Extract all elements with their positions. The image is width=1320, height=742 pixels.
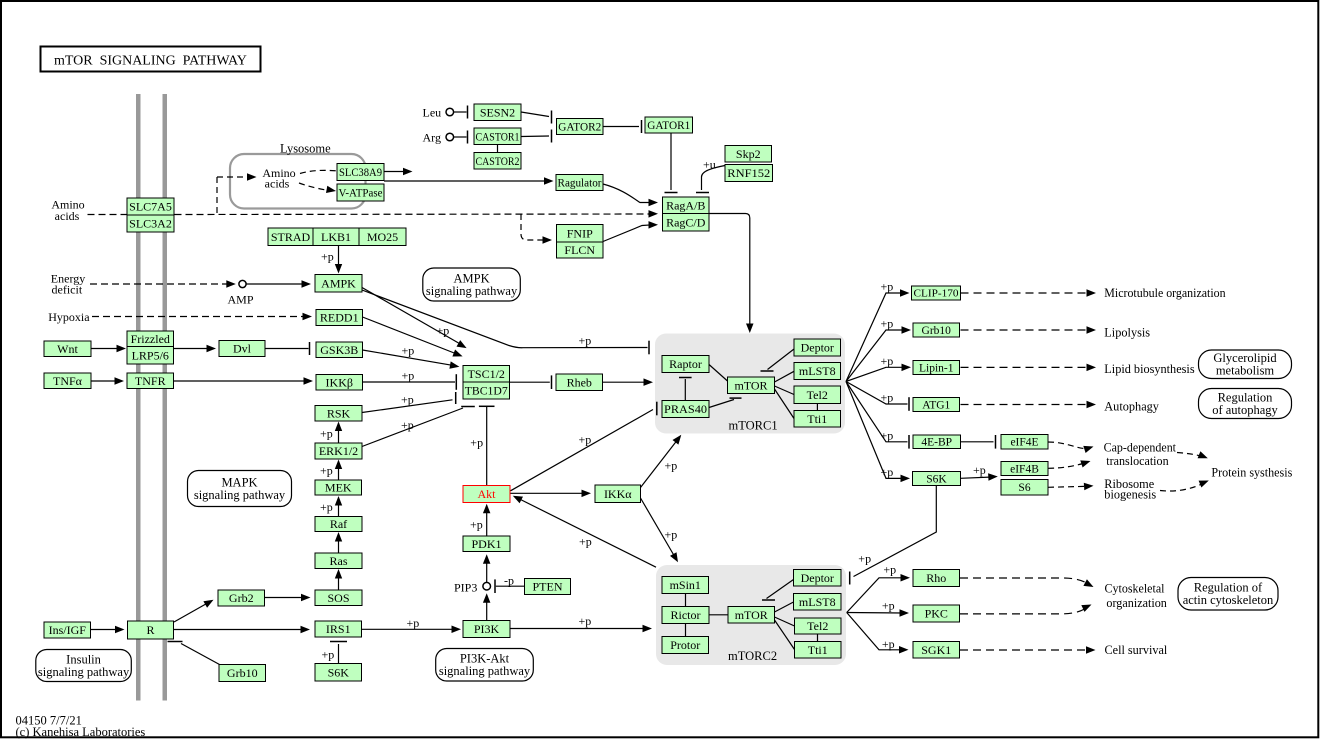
svg-text:IKKβ: IKKβ: [326, 375, 353, 389]
svg-text:GSK3B: GSK3B: [320, 343, 358, 357]
svg-text:Ragulator: Ragulator: [558, 176, 602, 190]
svg-text:CLIP-170: CLIP-170: [914, 288, 960, 300]
svg-text:mTOR: mTOR: [735, 608, 768, 622]
svg-text:Rho: Rho: [926, 571, 946, 585]
svg-text:+p: +p: [882, 637, 895, 651]
svg-text:RSK: RSK: [327, 406, 351, 420]
svg-text:mTOR SIGNALING PATHWAY: mTOR SIGNALING PATHWAY: [54, 54, 248, 69]
svg-text:+p: +p: [881, 354, 894, 368]
svg-text:4E-BP: 4E-BP: [921, 437, 952, 449]
svg-text:metabolism: metabolism: [1216, 364, 1275, 378]
svg-text:SOS: SOS: [327, 591, 349, 605]
svg-text:Cytoskeletal: Cytoskeletal: [1105, 582, 1166, 596]
svg-text:signaling pathway: signaling pathway: [38, 665, 130, 679]
svg-text:LRP5/6: LRP5/6: [132, 348, 169, 362]
svg-text:Deptor: Deptor: [801, 341, 834, 355]
svg-text:ATG1: ATG1: [922, 399, 950, 411]
svg-text:+p: +p: [881, 391, 894, 405]
svg-text:+p: +p: [322, 648, 335, 662]
svg-text:S6: S6: [1018, 482, 1030, 494]
svg-text:Wnt: Wnt: [57, 342, 78, 356]
svg-text:TBC1D7: TBC1D7: [465, 384, 508, 398]
svg-text:PIP3: PIP3: [454, 580, 477, 594]
svg-text:+p: +p: [320, 500, 333, 514]
svg-text:mLST8: mLST8: [799, 595, 836, 609]
svg-text:AMPK: AMPK: [321, 276, 356, 290]
svg-text:CASTOR1: CASTOR1: [476, 129, 520, 143]
svg-text:Ras: Ras: [330, 554, 348, 568]
svg-text:Rheb: Rheb: [567, 375, 592, 389]
svg-text:+p: +p: [881, 280, 894, 294]
svg-text:mTORC2: mTORC2: [728, 649, 777, 663]
svg-text:RagA/B: RagA/B: [666, 198, 705, 212]
svg-text:mTOR: mTOR: [734, 378, 767, 392]
svg-text:+p: +p: [579, 334, 592, 348]
svg-text:SGK1: SGK1: [921, 643, 951, 657]
svg-text:MEK: MEK: [325, 481, 352, 495]
svg-text:signaling pathway: signaling pathway: [194, 488, 286, 502]
svg-text:+p: +p: [320, 427, 333, 441]
svg-text:Cap-dependent: Cap-dependent: [1104, 440, 1177, 454]
svg-text:STRAD: STRAD: [271, 230, 311, 244]
svg-text:Hypoxia: Hypoxia: [48, 310, 90, 324]
svg-text:Protor: Protor: [670, 638, 700, 652]
svg-text:Lipin-1: Lipin-1: [919, 362, 954, 374]
svg-text:IKKα: IKKα: [604, 487, 632, 501]
svg-text:translocation: translocation: [1106, 454, 1168, 468]
svg-text:mTORC1: mTORC1: [729, 419, 778, 433]
svg-text:Arg: Arg: [423, 131, 441, 145]
svg-text:+p: +p: [401, 418, 414, 432]
svg-text:+p: +p: [401, 392, 414, 406]
svg-text:+p: +p: [881, 317, 894, 331]
svg-text:IRS1: IRS1: [326, 622, 351, 636]
svg-text:+p: +p: [437, 324, 450, 338]
svg-text:Tel2: Tel2: [807, 388, 828, 402]
svg-text:acids: acids: [55, 209, 80, 223]
svg-text:signaling pathway: signaling pathway: [426, 284, 518, 298]
svg-text:eIF4E: eIF4E: [1010, 437, 1038, 449]
svg-text:SESN2: SESN2: [480, 105, 515, 119]
svg-text:TSC1/2: TSC1/2: [468, 367, 505, 381]
svg-text:organization: organization: [1106, 596, 1167, 610]
svg-text:mLST8: mLST8: [799, 364, 836, 378]
svg-text:deficit: deficit: [52, 283, 83, 297]
svg-text:MO25: MO25: [367, 230, 398, 244]
svg-text:+p: +p: [579, 614, 592, 628]
svg-text:S6K: S6K: [926, 473, 947, 485]
svg-text:S6K: S6K: [328, 665, 350, 679]
svg-text:CASTOR2: CASTOR2: [476, 154, 520, 168]
svg-text:+p: +p: [882, 598, 895, 612]
svg-text:+p: +p: [402, 369, 415, 383]
svg-text:mSin1: mSin1: [670, 578, 701, 592]
svg-text:+u: +u: [703, 158, 716, 172]
svg-text:R: R: [146, 623, 154, 637]
svg-text:+p: +p: [470, 435, 483, 449]
svg-text:+p: +p: [470, 518, 483, 532]
svg-text:Cell survival: Cell survival: [1105, 643, 1168, 657]
svg-text:RagC/D: RagC/D: [666, 215, 706, 229]
svg-text:+p: +p: [858, 552, 871, 566]
svg-text:Dvl: Dvl: [233, 342, 252, 356]
svg-text:Tel2: Tel2: [807, 619, 828, 633]
svg-text:Akt: Akt: [478, 487, 497, 501]
svg-text:Tti1: Tti1: [808, 643, 828, 657]
svg-text:TNFα: TNFα: [53, 374, 83, 388]
svg-text:+p: +p: [883, 563, 896, 577]
svg-text:Skp2: Skp2: [736, 147, 761, 161]
svg-text:Rictor: Rictor: [671, 608, 701, 622]
svg-text:ERK1/2: ERK1/2: [319, 444, 358, 458]
svg-text:+p: +p: [665, 459, 678, 473]
svg-text:+p: +p: [407, 616, 420, 630]
svg-text:of autophagy: of autophagy: [1212, 403, 1278, 417]
svg-text:PI3K: PI3K: [474, 622, 500, 636]
svg-text:+p: +p: [579, 535, 592, 549]
svg-text:+p: +p: [321, 250, 334, 264]
svg-text:acids: acids: [265, 177, 290, 191]
svg-text:+p: +p: [320, 464, 333, 478]
svg-text:Raf: Raf: [330, 517, 347, 531]
svg-text:PDK1: PDK1: [471, 537, 501, 551]
svg-text:PTEN: PTEN: [533, 580, 563, 594]
svg-text:SLC7A5: SLC7A5: [129, 200, 172, 214]
svg-text:AMP: AMP: [227, 293, 253, 307]
svg-text:Microtubule organization: Microtubule organization: [1104, 286, 1225, 300]
svg-text:PKC: PKC: [925, 607, 948, 621]
svg-text:Lysosome: Lysosome: [280, 141, 331, 155]
svg-text:FLCN: FLCN: [564, 243, 595, 257]
svg-text:+p: +p: [665, 528, 678, 542]
svg-text:Grb10: Grb10: [227, 666, 258, 680]
svg-text:+p: +p: [579, 433, 592, 447]
svg-text:Frizzled: Frizzled: [131, 332, 170, 346]
svg-text:Ins/IGF: Ins/IGF: [49, 623, 87, 637]
svg-text:GATOR1: GATOR1: [647, 118, 690, 132]
svg-text:Raptor: Raptor: [669, 357, 702, 371]
svg-text:SLC38A9: SLC38A9: [339, 165, 382, 179]
svg-text:Grb10: Grb10: [922, 325, 952, 337]
svg-text:SLC3A2: SLC3A2: [129, 217, 172, 231]
svg-text:Autophagy: Autophagy: [1104, 400, 1159, 414]
svg-text:V-ATPase: V-ATPase: [339, 186, 383, 200]
svg-text:Tti1: Tti1: [807, 412, 827, 426]
svg-text:LKB1: LKB1: [321, 230, 351, 244]
svg-text:eIF4B: eIF4B: [1010, 463, 1039, 475]
svg-text:GATOR2: GATOR2: [558, 120, 601, 134]
svg-text:+p: +p: [973, 463, 986, 477]
svg-text:(c) Kanehisa Laboratories: (c) Kanehisa Laboratories: [16, 725, 146, 739]
svg-text:REDD1: REDD1: [320, 311, 359, 325]
svg-text:RNF152: RNF152: [727, 166, 770, 180]
svg-text:Deptor: Deptor: [801, 571, 834, 585]
svg-text:PRAS40: PRAS40: [664, 402, 707, 416]
svg-text:actin cytoskeleton: actin cytoskeleton: [1183, 593, 1274, 607]
svg-text:biogenesis: biogenesis: [1104, 487, 1156, 501]
svg-text:Grb2: Grb2: [229, 591, 254, 605]
svg-text:+p: +p: [881, 428, 894, 442]
svg-text:Leu: Leu: [423, 106, 442, 120]
svg-text:FNIP: FNIP: [567, 226, 593, 240]
svg-text:+p: +p: [881, 465, 894, 479]
svg-text:Protein systhesis: Protein systhesis: [1211, 466, 1292, 480]
svg-text:Lipid biosynthesis: Lipid biosynthesis: [1104, 362, 1195, 376]
svg-text:Lipolysis: Lipolysis: [1104, 326, 1150, 340]
svg-text:signaling pathway: signaling pathway: [439, 664, 531, 678]
svg-text:TNFR: TNFR: [135, 374, 166, 388]
svg-text:+p: +p: [402, 344, 415, 358]
svg-text:-p: -p: [504, 573, 514, 587]
